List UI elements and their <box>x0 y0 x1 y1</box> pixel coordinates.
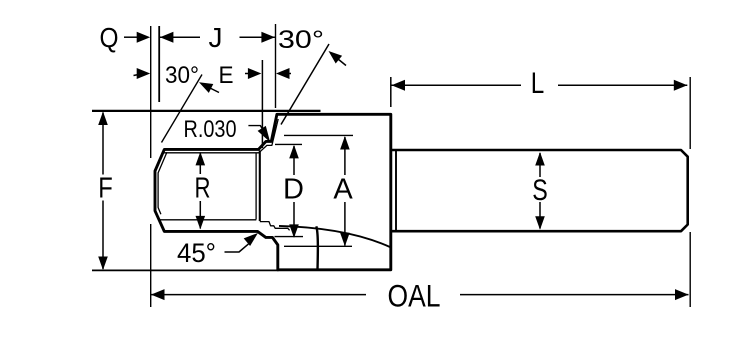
svg-text:J: J <box>209 22 223 53</box>
svg-text:E: E <box>219 62 234 89</box>
30 deg step chamfer extension line <box>281 44 329 125</box>
svg-text:45°: 45° <box>177 238 216 268</box>
A top tick <box>284 134 353 136</box>
dimension L line and arrows <box>392 84 688 86</box>
30 deg nose leader arrow <box>210 88 219 93</box>
dimension D line and arrows <box>293 146 295 237</box>
extension line Q left / OAL left <box>150 26 152 307</box>
extension line E left <box>261 60 263 148</box>
nose inner thin line <box>158 152 167 214</box>
thread minor line top <box>163 119 278 153</box>
dimension Q arrow <box>124 36 138 38</box>
dimension A line and arrows <box>344 137 346 246</box>
svg-text:F: F <box>98 173 113 205</box>
F extension line bottom <box>92 269 279 271</box>
shank outline <box>391 150 688 231</box>
thread relief groove faces <box>255 154 257 220</box>
45 deg leader <box>225 244 249 252</box>
30 deg step leader arrow <box>338 59 346 66</box>
svg-text:D: D <box>283 173 304 205</box>
svg-text:R: R <box>195 173 211 205</box>
D top tick <box>275 143 302 145</box>
dimension E arrows <box>245 73 250 75</box>
A bottom tick <box>284 245 352 247</box>
R.030 leader <box>248 126 266 136</box>
thread relief line bottom right <box>260 222 290 231</box>
flute gash line <box>316 226 318 269</box>
dimension R line and arrows <box>199 153 201 229</box>
svg-text:L: L <box>531 67 545 100</box>
30 deg nose arrow row2 <box>134 74 142 76</box>
dimension J line and arrows <box>160 36 275 38</box>
extension line L left <box>390 77 392 107</box>
svg-text:A: A <box>333 173 353 205</box>
extension line Q right / J left <box>158 26 160 102</box>
dimension S line and arrows <box>539 153 541 229</box>
thread minor line bottom <box>159 219 257 221</box>
extension line J right / E right <box>275 24 277 108</box>
svg-text:OAL: OAL <box>388 278 441 314</box>
30 deg nose chamfer extension line <box>162 75 203 143</box>
svg-text:Q: Q <box>100 22 119 53</box>
dimension OAL line and arrows <box>151 294 689 296</box>
svg-text:30°: 30° <box>165 62 199 89</box>
svg-text:R.030: R.030 <box>184 116 237 143</box>
part outline: pilot, relief, body <box>155 114 391 269</box>
svg-text:S: S <box>532 174 548 207</box>
extension line L right / OAL right <box>689 77 691 307</box>
D bottom tick <box>275 236 304 238</box>
dimension F line and arrows <box>102 113 104 270</box>
port flank arc <box>279 226 391 248</box>
F extension line top <box>92 110 321 112</box>
svg-text:30°: 30° <box>278 26 324 54</box>
shank joint line <box>395 151 397 231</box>
